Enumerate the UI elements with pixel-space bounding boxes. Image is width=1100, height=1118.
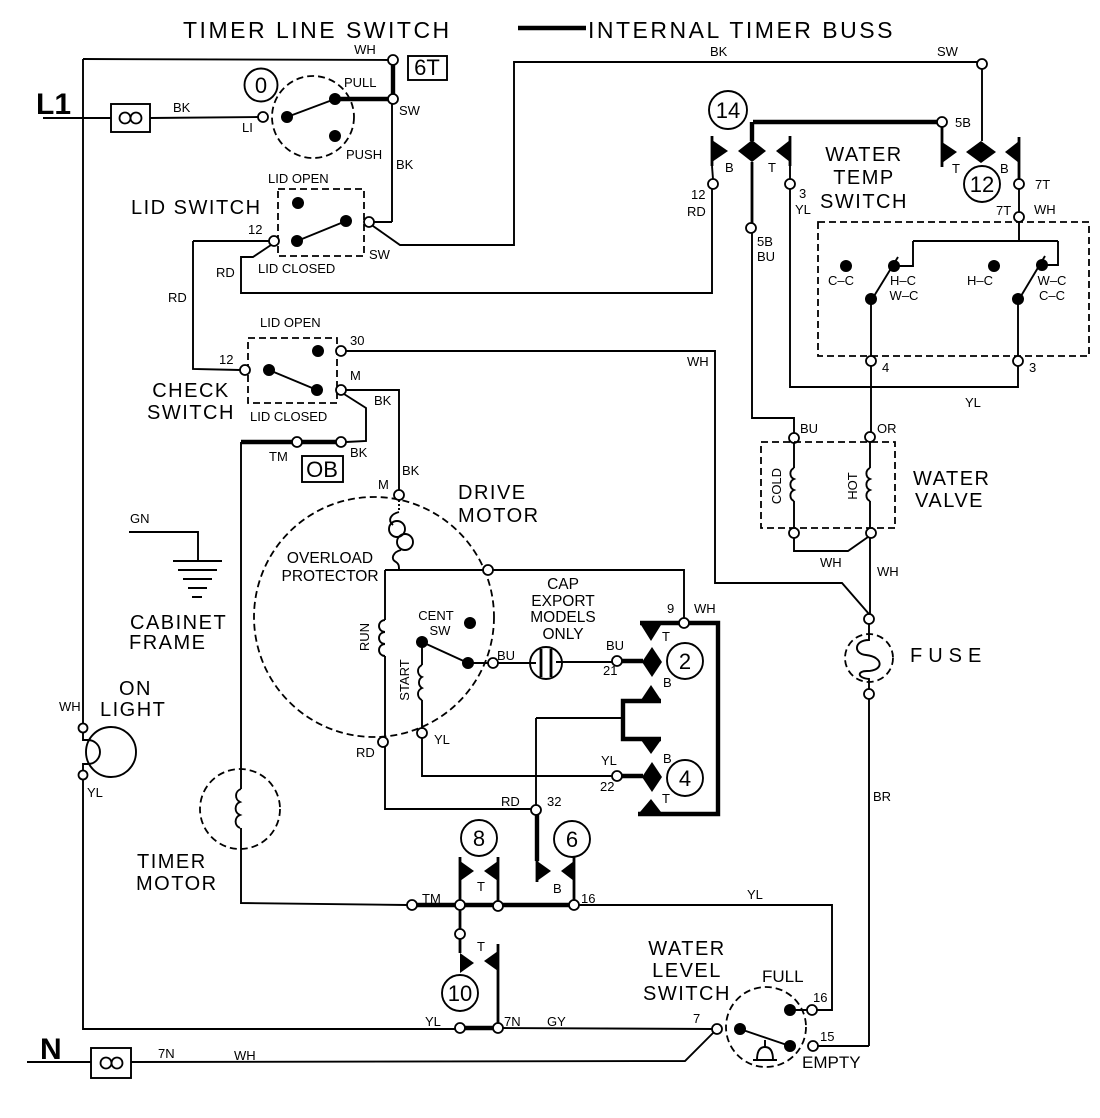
svg-text:OB: OB [306, 457, 338, 482]
svg-text:SW: SW [399, 103, 421, 118]
svg-text:LID CLOSED: LID CLOSED [258, 261, 335, 276]
svg-text:MOTOR: MOTOR [136, 873, 218, 895]
svg-text:TM: TM [269, 449, 288, 464]
svg-text:16: 16 [581, 891, 595, 906]
svg-text:DRIVE: DRIVE [458, 482, 527, 504]
svg-text:WH: WH [354, 42, 376, 57]
svg-text:WH: WH [820, 555, 842, 570]
svg-text:C–C: C–C [828, 273, 854, 288]
svg-text:3: 3 [799, 186, 806, 201]
svg-text:PUSH: PUSH [346, 147, 382, 162]
svg-text:SWITCH: SWITCH [820, 191, 908, 213]
svg-text:9: 9 [667, 601, 674, 616]
svg-text:INTERNAL TIMER BUSS: INTERNAL TIMER BUSS [588, 17, 895, 43]
svg-text:7N: 7N [504, 1014, 521, 1029]
svg-text:32: 32 [547, 794, 561, 809]
svg-text:22: 22 [600, 779, 614, 794]
svg-text:START: START [397, 659, 412, 700]
svg-text:7T: 7T [996, 203, 1011, 218]
svg-text:14: 14 [716, 98, 740, 123]
svg-text:PROTECTOR: PROTECTOR [281, 568, 378, 585]
svg-text:CENT: CENT [418, 608, 453, 623]
svg-text:L1: L1 [36, 88, 71, 121]
svg-text:5B: 5B [955, 115, 971, 130]
svg-text:WH: WH [687, 354, 709, 369]
svg-text:BK: BK [173, 100, 191, 115]
svg-text:T: T [477, 939, 485, 954]
svg-text:BU: BU [800, 421, 818, 436]
svg-text:LID SWITCH: LID SWITCH [131, 197, 262, 219]
svg-text:12: 12 [691, 187, 705, 202]
svg-text:HOT: HOT [845, 472, 860, 500]
svg-text:LI: LI [242, 120, 253, 135]
svg-text:CABINET: CABINET [130, 612, 227, 634]
svg-text:W–C: W–C [890, 288, 919, 303]
svg-text:COLD: COLD [769, 468, 784, 504]
svg-text:EMPTY: EMPTY [802, 1053, 861, 1072]
svg-text:OR: OR [877, 421, 897, 436]
svg-text:15: 15 [820, 1029, 834, 1044]
svg-text:WH: WH [1034, 202, 1056, 217]
svg-text:BK: BK [350, 445, 368, 460]
svg-text:BR: BR [873, 789, 891, 804]
svg-text:FUSE: FUSE [910, 645, 987, 667]
svg-text:WH: WH [59, 699, 81, 714]
svg-text:SWITCH: SWITCH [147, 402, 235, 424]
svg-text:MOTOR: MOTOR [458, 505, 540, 527]
svg-text:CHECK: CHECK [152, 380, 230, 402]
svg-text:PULL: PULL [344, 75, 377, 90]
svg-text:0: 0 [255, 73, 267, 98]
svg-text:T: T [768, 160, 776, 175]
svg-text:B: B [1000, 161, 1009, 176]
svg-text:RD: RD [687, 204, 706, 219]
svg-text:TEMP: TEMP [833, 167, 895, 189]
svg-text:5B: 5B [757, 234, 773, 249]
svg-text:ONLY: ONLY [542, 626, 583, 643]
svg-text:6: 6 [566, 827, 578, 852]
svg-text:BU: BU [606, 638, 624, 653]
svg-text:T: T [662, 791, 670, 806]
svg-text:B: B [725, 160, 734, 175]
svg-text:RD: RD [501, 794, 520, 809]
svg-text:LIGHT: LIGHT [100, 699, 166, 721]
svg-text:YL: YL [965, 395, 981, 410]
svg-text:SW: SW [369, 247, 391, 262]
svg-text:8: 8 [473, 826, 485, 851]
svg-text:LID OPEN: LID OPEN [268, 171, 329, 186]
svg-text:FULL: FULL [762, 967, 804, 986]
svg-text:H–C: H–C [890, 273, 916, 288]
svg-text:WH: WH [877, 564, 899, 579]
svg-text:RUN: RUN [357, 623, 372, 651]
svg-text:TIMER LINE SWITCH: TIMER LINE SWITCH [183, 17, 452, 43]
svg-text:B: B [663, 675, 672, 690]
svg-text:SW: SW [430, 623, 452, 638]
svg-text:T: T [477, 879, 485, 894]
svg-text:12: 12 [970, 172, 994, 197]
svg-text:16: 16 [813, 990, 827, 1005]
svg-text:BK: BK [710, 44, 728, 59]
svg-text:WATER: WATER [825, 144, 903, 166]
svg-text:C–C: C–C [1039, 288, 1065, 303]
svg-text:WH: WH [234, 1048, 256, 1063]
svg-text:YL: YL [795, 202, 811, 217]
svg-text:2: 2 [679, 649, 691, 674]
svg-text:CAP: CAP [547, 576, 579, 593]
svg-text:BK: BK [402, 463, 420, 478]
svg-text:YL: YL [747, 887, 763, 902]
svg-text:WH: WH [694, 601, 716, 616]
svg-text:7: 7 [693, 1011, 700, 1026]
svg-text:SWITCH: SWITCH [643, 983, 731, 1005]
svg-text:B: B [553, 881, 562, 896]
svg-text:BU: BU [757, 249, 775, 264]
svg-text:30: 30 [350, 333, 364, 348]
svg-text:7T: 7T [1035, 177, 1050, 192]
svg-text:LID OPEN: LID OPEN [260, 315, 321, 330]
svg-text:M: M [378, 477, 389, 492]
svg-text:N: N [40, 1033, 62, 1066]
svg-text:6T: 6T [414, 55, 440, 80]
svg-text:12: 12 [248, 222, 262, 237]
svg-text:4: 4 [882, 360, 889, 375]
svg-text:3: 3 [1029, 360, 1036, 375]
svg-text:YL: YL [601, 753, 617, 768]
svg-text:WATER: WATER [648, 938, 726, 960]
svg-text:M: M [350, 368, 361, 383]
svg-text:TIMER: TIMER [137, 851, 207, 873]
svg-text:LID CLOSED: LID CLOSED [250, 409, 327, 424]
svg-text:YL: YL [434, 732, 450, 747]
svg-text:LEVEL: LEVEL [652, 960, 722, 982]
svg-text:EXPORT: EXPORT [531, 593, 595, 610]
svg-text:OVERLOAD: OVERLOAD [287, 550, 373, 567]
svg-text:12: 12 [219, 352, 233, 367]
svg-text:7N: 7N [158, 1046, 175, 1061]
svg-text:YL: YL [425, 1014, 441, 1029]
svg-text:4: 4 [679, 766, 691, 791]
svg-text:T: T [952, 161, 960, 176]
svg-text:21: 21 [603, 663, 617, 678]
svg-text:MODELS: MODELS [530, 609, 595, 626]
svg-text:ON: ON [119, 678, 152, 700]
svg-text:10: 10 [448, 981, 472, 1006]
svg-text:YL: YL [87, 785, 103, 800]
svg-text:TM: TM [422, 891, 441, 906]
svg-text:VALVE: VALVE [915, 490, 984, 512]
svg-text:RD: RD [216, 265, 235, 280]
svg-text:W–C: W–C [1038, 273, 1067, 288]
svg-text:GN: GN [130, 511, 150, 526]
svg-text:BU: BU [497, 648, 515, 663]
svg-text:SW: SW [937, 44, 959, 59]
svg-text:BK: BK [374, 393, 392, 408]
svg-text:RD: RD [168, 290, 187, 305]
svg-text:BK: BK [396, 157, 414, 172]
svg-text:FRAME: FRAME [129, 632, 207, 654]
svg-text:B: B [663, 751, 672, 766]
svg-text:RD: RD [356, 745, 375, 760]
svg-text:WATER: WATER [913, 468, 991, 490]
svg-text:GY: GY [547, 1014, 566, 1029]
svg-text:H–C: H–C [967, 273, 993, 288]
svg-text:T: T [662, 629, 670, 644]
